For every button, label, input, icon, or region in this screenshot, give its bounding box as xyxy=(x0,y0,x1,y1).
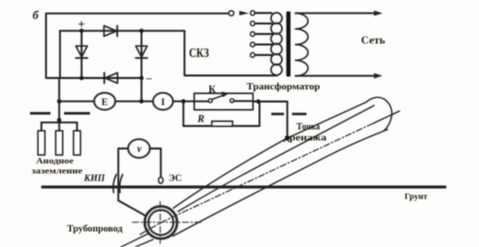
svg-text:R: R xyxy=(197,114,205,125)
svg-text:–: – xyxy=(145,73,152,85)
svg-text:v: v xyxy=(137,144,142,155)
svg-text:Анодное: Анодное xyxy=(36,156,74,166)
svg-text:дренажа: дренажа xyxy=(284,133,327,143)
svg-text:Сеть: Сеть xyxy=(361,35,385,47)
svg-text:заземление: заземление xyxy=(32,166,83,176)
svg-text:КИП: КИП xyxy=(83,174,106,184)
svg-text:Трансформатор: Трансформатор xyxy=(247,82,321,93)
svg-text:Трубопровод: Трубопровод xyxy=(67,224,123,234)
svg-text:Е: Е xyxy=(102,98,108,108)
svg-text:+: + xyxy=(78,17,85,32)
svg-text:СКЗ: СКЗ xyxy=(189,45,209,60)
svg-text:I: I xyxy=(161,98,165,108)
svg-text:б: б xyxy=(33,8,40,22)
svg-text:Точка: Точка xyxy=(297,123,321,133)
svg-text:Грунт: Грунт xyxy=(405,191,429,201)
svg-text:ЭС: ЭС xyxy=(169,174,182,184)
svg-text:К: К xyxy=(209,85,217,96)
